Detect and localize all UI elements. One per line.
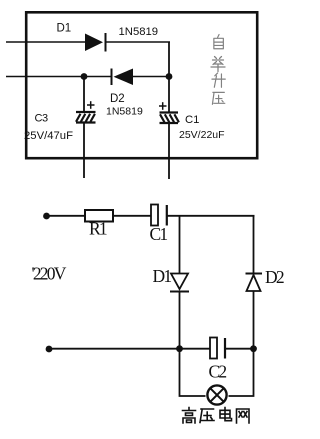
- 压: [212, 92, 224, 104]
- svg-text:D2: D2: [110, 93, 125, 105]
- wire D2 to right vertical: [133, 76, 170, 78]
- wire C2 to right node: [225, 348, 254, 350]
- node terminal top-left: [43, 213, 50, 220]
- wire terminal to R1: [47, 215, 86, 217]
- wire right vertical (D1 cathode down to C1): [168, 42, 170, 112]
- diode D1 (rectifier): [170, 274, 189, 292]
- svg-text:'220V: '220V: [32, 264, 67, 284]
- capacitor C1 (coupling): [151, 205, 167, 226]
- wire D1 cathode to corner: [106, 41, 171, 43]
- wire D2 to lower right node: [253, 291, 255, 349]
- capacitor C2: [210, 338, 225, 359]
- wire top input: [6, 41, 85, 43]
- 电: [220, 408, 232, 421]
- diode D2: [112, 69, 134, 86]
- wire right branch vertical (to D2): [253, 216, 255, 273]
- node junction right (D2 / C2): [250, 345, 257, 352]
- label 自举升压 (vertical gray text): [211, 35, 225, 105]
- 自: [214, 35, 224, 49]
- capacitor C3: [76, 77, 96, 179]
- wire bottom input: [6, 76, 112, 78]
- svg-text:C1: C1: [150, 224, 168, 244]
- svg-text:C2: C2: [209, 362, 227, 382]
- resistor R1: [85, 210, 113, 222]
- lamp (high voltage grid load): [207, 385, 226, 404]
- svg-text:D1: D1: [57, 23, 72, 35]
- 压: [200, 409, 214, 423]
- svg-text:D1: D1: [153, 266, 172, 286]
- node terminal bottom-left: [46, 346, 53, 353]
- node junction (right vertical / wire2): [166, 73, 173, 80]
- capacitor C1: [159, 102, 179, 179]
- 高: [183, 408, 196, 424]
- svg-text:1N5819: 1N5819: [106, 106, 143, 118]
- 升: [212, 73, 225, 87]
- svg-text:1N5819: 1N5819: [119, 26, 159, 38]
- node junction (wire2 / C3): [81, 73, 88, 80]
- node junction left (D1 / C2): [176, 345, 183, 352]
- label 高压电网: [183, 408, 250, 424]
- 举: [211, 57, 225, 72]
- wire R1 to C1: [113, 215, 151, 217]
- svg-text:C3: C3: [35, 113, 48, 125]
- svg-text:25V/22uF: 25V/22uF: [179, 129, 225, 141]
- wire D1 to lower node: [179, 292, 181, 350]
- diode D1: [85, 33, 106, 52]
- 网: [237, 409, 250, 423]
- wire left branch vertical (to D1): [179, 216, 181, 274]
- svg-text:R1: R1: [89, 219, 107, 239]
- enclosure box: [26, 12, 257, 158]
- svg-text:C1: C1: [185, 114, 199, 126]
- wire C1 to top-right corner: [167, 215, 255, 217]
- wire lamp to right branch: [229, 349, 254, 396]
- diode D2 (rectifier): [246, 274, 263, 292]
- wire bottom main: [49, 348, 210, 350]
- svg-text:D2: D2: [265, 267, 284, 287]
- svg-text:25V/47uF: 25V/47uF: [24, 130, 73, 142]
- wire left down to lamp: [180, 349, 206, 396]
